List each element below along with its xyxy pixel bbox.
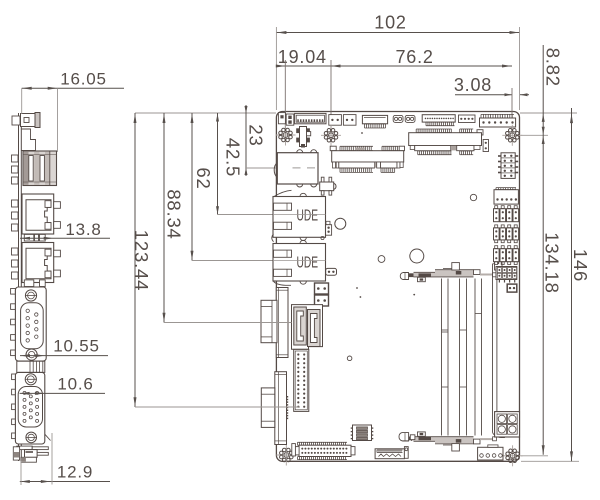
- svg-text:146: 146: [570, 249, 591, 282]
- svg-text:8.82: 8.82: [543, 48, 564, 87]
- svg-text:76.2: 76.2: [395, 47, 433, 67]
- svg-text:134.18: 134.18: [541, 232, 562, 293]
- svg-text:UDE: UDE: [297, 207, 319, 224]
- svg-text:16.05: 16.05: [60, 70, 107, 89]
- svg-text:UDE: UDE: [297, 254, 319, 271]
- svg-text:102: 102: [374, 13, 406, 33]
- svg-text:13.8: 13.8: [65, 220, 101, 239]
- svg-text:3.08: 3.08: [454, 75, 492, 95]
- svg-text:88.34: 88.34: [164, 189, 185, 239]
- svg-text:23: 23: [245, 124, 266, 146]
- svg-text:12.9: 12.9: [57, 463, 93, 482]
- svg-text:123.44: 123.44: [131, 230, 152, 291]
- svg-text:10.6: 10.6: [57, 375, 93, 394]
- svg-text:62: 62: [193, 167, 214, 189]
- svg-text:42.5: 42.5: [223, 138, 244, 177]
- svg-text:10.55: 10.55: [53, 337, 100, 356]
